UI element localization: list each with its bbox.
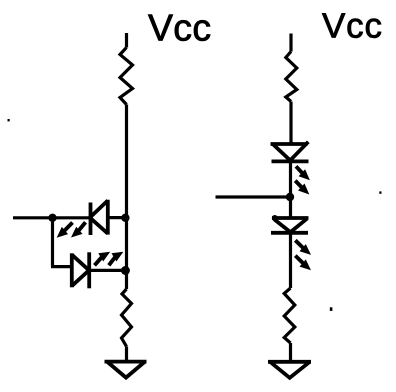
wire: right rail D4 cathode to R4: [289, 233, 292, 288]
LED D2 (lower left, pointing right): [72, 252, 89, 288]
wire: right rail R4 to ground: [289, 343, 292, 361]
wire: right rail R3 to LED D3: [289, 102, 292, 145]
node: left input junction: [48, 214, 56, 222]
ground (left): [105, 362, 147, 378]
wire: right rail top stub: [289, 34, 292, 52]
node A junction dot on left rail: [121, 214, 129, 222]
node C junction dot on right rail: [286, 193, 294, 201]
svg-text:Vcc: Vcc: [148, 7, 211, 49]
resistor R4 (right pull-down): [284, 288, 295, 343]
wire: LED D2 cathode to left rail: [89, 269, 126, 272]
wire: left leg down from input junction: [51, 218, 54, 267]
wire: left rail node B to R2: [125, 271, 128, 290]
ground (right): [268, 362, 311, 378]
resistor R3 (right pull-up): [286, 52, 297, 102]
wire: right input lead: [216, 195, 291, 198]
wire: left rail from R1 down to node A: [125, 105, 128, 219]
wire: left rail R2 to ground: [125, 347, 128, 361]
wire: right rail D3 cathode to node C: [289, 161, 292, 217]
wire: LED D1 anode to left rail: [108, 216, 127, 219]
node B junction dot on left rail: [121, 266, 130, 275]
wire: left rail node A to node B: [125, 218, 128, 271]
wire: left leg to LED D2 anode: [51, 265, 70, 268]
LED D3 (right upper, pointing down): [271, 142, 309, 163]
resistor R2 (left pull-down): [122, 289, 132, 347]
wire: left rail top stub: [125, 33, 128, 48]
resistor R1 (left pull-up): [120, 48, 133, 105]
LED D1 (upper left, pointing left): [90, 200, 108, 235]
svg-text:Vcc: Vcc: [322, 7, 383, 46]
LED D3 emission arrows (pointing down-right): [295, 166, 310, 194]
wire: left input lead: [13, 216, 52, 219]
LED D2 emission arrows (pointing up-right): [95, 252, 124, 266]
LED D4 emission arrows (pointing down-right): [295, 240, 311, 270]
wire: junction to LED D1 cathode: [52, 216, 90, 219]
LED D4 (right lower, pointing down): [271, 215, 309, 234]
LED D1 emission arrows (pointing down-left): [57, 222, 86, 237]
